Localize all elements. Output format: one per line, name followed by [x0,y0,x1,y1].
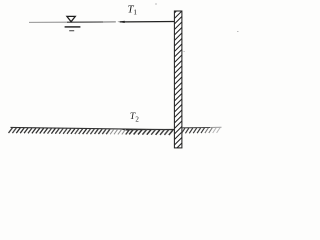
scan speckles [155,4,239,53]
ground surface left of wall [9,127,175,135]
retaining wall (hatched) [173,5,183,158]
ground surface right of wall [182,127,222,133]
water surface line (faint left part) [29,21,67,23]
water level symbol small dash [69,30,74,32]
arrow T2 line [124,128,175,130]
arrow T2 head [122,129,129,131]
water level symbol triangle [67,16,75,21]
water level symbol underline [65,26,81,28]
arrow T1 head [117,21,124,23]
svg-text:1: 1 [133,8,137,17]
arrow T1 line [120,21,175,23]
water surface line (dark right part) [67,21,103,23]
svg-text:2: 2 [135,115,139,123]
